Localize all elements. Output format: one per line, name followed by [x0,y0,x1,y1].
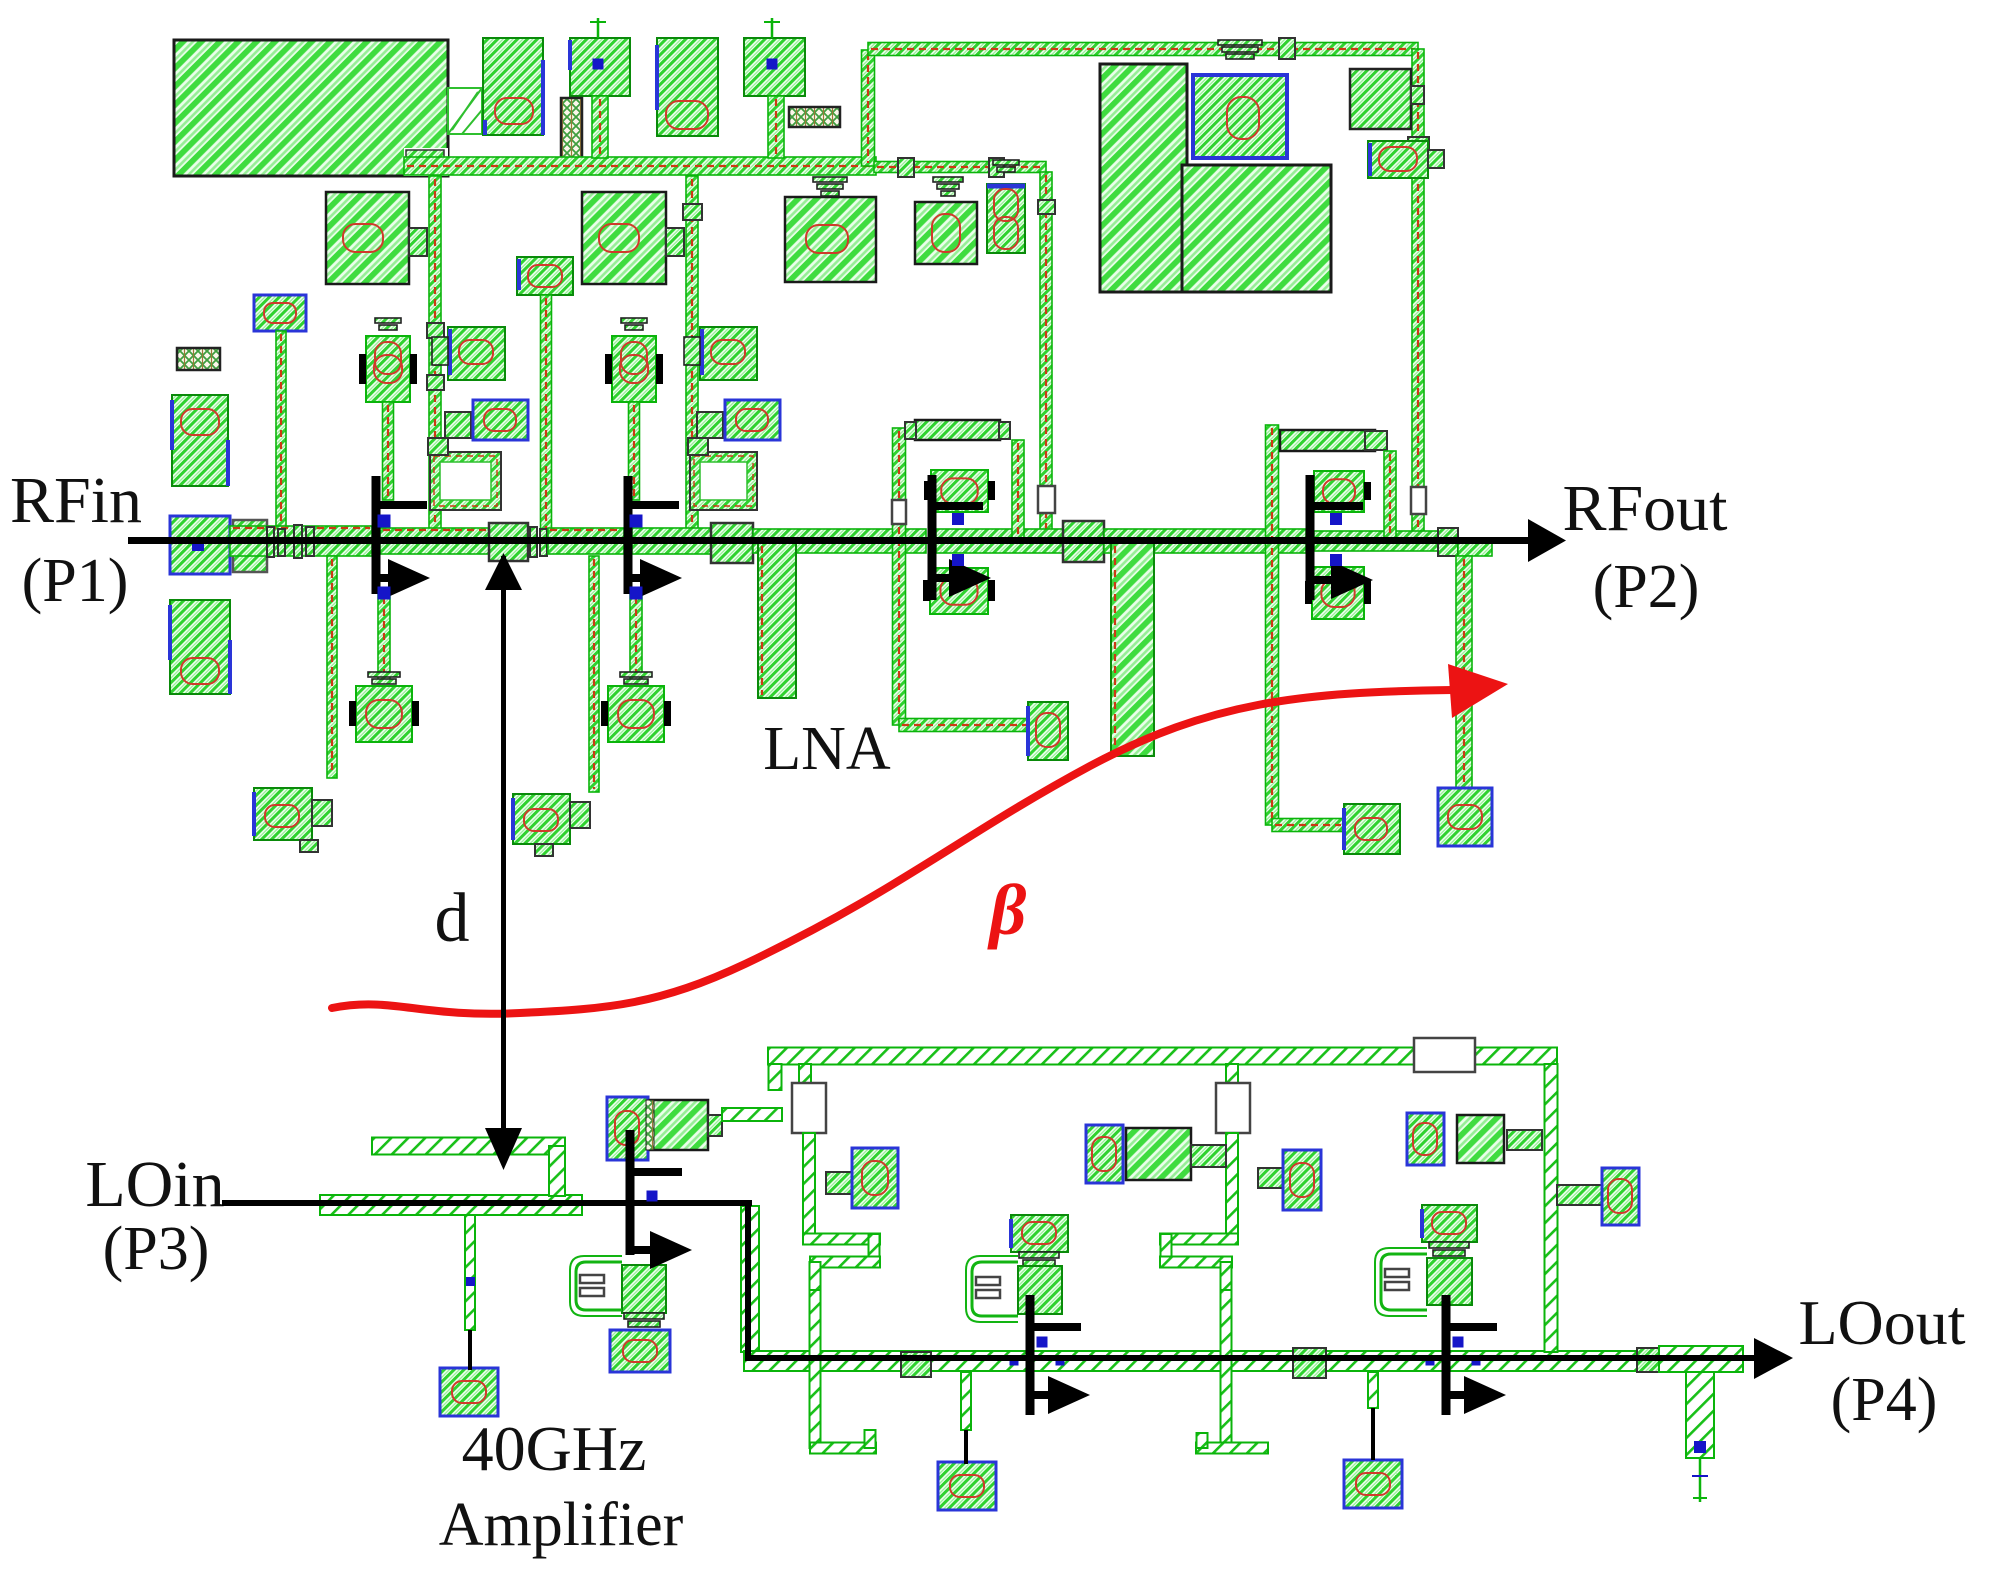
wire pad-b2 drop [768,96,784,158]
capacitor sym A1 [580,1275,604,1296]
open stub (wide) st1 [758,543,796,698]
transistor Q4 loop left leg [1266,425,1279,825]
wire black pin A3 [1371,1408,1375,1460]
capacitor C35 (A3 top) [1422,1205,1477,1256]
port label LOout [1798,1287,1965,1358]
LO output line wire [745,1355,1757,1361]
RF microstrip segment s2 [380,528,489,554]
capacitor C11 [172,395,228,486]
svg-text:(P1): (P1) [22,547,129,615]
V-rail microstrip [722,1048,1557,1122]
resistor RA3 (on rail) [1414,1038,1475,1072]
feedback loop stage1 [428,438,501,510]
thin-film resistor (cross-hatch) RX1 [561,98,582,158]
wire source stem stage2 [630,594,642,683]
capacitor C19 [697,400,780,440]
bypass capacitor C20 stage2 [601,672,671,742]
capacitor C34 (A2 stub) [938,1462,996,1510]
label beta [987,870,1027,950]
resistor R4 on stage4 bias wire [1411,487,1426,514]
capacitor C27 (Q4 bottom) [1305,567,1371,619]
wire gate stem stage1 [383,402,394,500]
gate cap stack stage2 [605,318,663,402]
LO output tee pad [1659,1346,1743,1502]
LO vertical microstrip [741,1206,759,1352]
RF input pad (P1) [170,516,230,574]
output junction block [1438,528,1458,556]
capacitor C4 [1368,141,1444,178]
feedback coupling curve (beta) [332,664,1508,1014]
transistor Q2 [624,476,683,600]
thin-film resistor RX3 [177,348,220,370]
svg-text:RFout: RFout [1562,472,1727,545]
RF microstrip segment s7 [1104,529,1306,553]
connector LO line a [901,1352,1065,1377]
capacitor C18 [684,327,757,380]
capacitor C32 [1258,1150,1321,1210]
RF microstrip segment s3 [548,528,624,554]
svg-text:(P4): (P4) [1831,1366,1938,1434]
capacitor C3 (blue frame) [1193,40,1287,158]
resistor R3 on stage3 bias wire [1038,486,1055,513]
RF microstrip segment s4 [632,528,711,554]
via pad P_b2 [744,18,805,96]
capacitor C14 [432,327,505,380]
block label Amplifier [439,1491,684,1559]
port label (P4) [1831,1366,1938,1434]
pad R1 [1350,69,1424,129]
capacitor C8 [254,295,306,331]
LO output microstrip [744,1351,1660,1371]
pad A1 drain block [646,1100,722,1150]
port label (P1) [22,547,129,615]
dimension arrow down [485,1128,522,1170]
shunt stub wire stage2 [589,556,599,792]
svg-text:d: d [435,880,470,957]
inductor loop stage4 top bar [1280,430,1387,451]
capacitor pad C1 [483,38,543,135]
capacitor pad C2 [657,38,718,136]
capacitor sym A3 [1385,1269,1409,1290]
bias wire down to stage4 (right vertical) [1412,49,1424,540]
LOout arrowhead [1754,1338,1793,1379]
capacitor C17 (stub end) [254,788,332,852]
block A2 gate [1018,1266,1062,1314]
label d [435,880,470,957]
inductor loop stage3 left leg [893,428,906,725]
block A1 source [622,1265,666,1327]
port label RFout [1562,472,1727,545]
dimension arrow up [485,553,522,590]
capacitor C33 (A2 top) [1011,1215,1068,1266]
LO input microstrip [320,1195,582,1215]
thin-film resistor (cross-hatch) RX2 [789,107,840,127]
shunt stub LOin [465,1215,475,1330]
connector pair in2 [294,525,314,558]
capacitor C31 [1557,1168,1639,1225]
capacitor C36 (A3 stub) [1344,1460,1402,1508]
bypass pair A2 [1086,1125,1226,1183]
capacitor C24 (Q3 bottom) [923,568,995,614]
capacitor C5 [326,192,427,284]
shunt stub A2 [961,1372,971,1430]
LO line vertical wire [745,1200,751,1360]
S-meander A1 [803,1234,880,1454]
bypass capacitor C16 stage1 [349,672,419,742]
capacitor C10 [987,160,1025,253]
matching block m3 [1063,521,1104,562]
capacitor C12 [170,600,230,694]
port label (P3) [103,1215,210,1283]
bypass loop A3 [1375,1248,1427,1316]
transistor Q4 [1306,475,1374,600]
svg-text:Amplifier: Amplifier [439,1491,684,1559]
svg-text:LOin: LOin [85,1148,224,1221]
bypass loop A1 [570,1256,622,1316]
wire C8 stem [276,331,286,532]
gate cap stack stage1 [359,318,417,402]
capacitor C22 (stage3 gnd) [1028,702,1068,760]
output stub tee [1456,538,1492,788]
capacitor C28 (LOin stub) [440,1368,498,1416]
via pad P_b1 [570,18,630,96]
connector LO line b [1293,1348,1481,1378]
capacitor C25 (stage4 gnd) [1344,804,1400,854]
wire C7 stem [541,295,552,532]
connector pair in1 [267,527,285,557]
svg-text:RFin: RFin [10,464,142,537]
gate tap cap A2 [826,1148,898,1208]
bias bus wire (lower) [404,157,876,175]
open stub (wide) st2 [1111,542,1154,756]
wire black pin A2 [964,1430,968,1464]
bias wire down to stage1 [427,176,444,530]
wire loop bottom stage3 [899,719,1030,732]
svg-text:40GHz: 40GHz [462,1413,647,1484]
resistor RA2 [1216,1064,1250,1240]
inductor loop stage3 top bar [905,420,1010,440]
bias bus wire (upper) [868,43,1418,56]
capacitor C6 [582,192,684,284]
svg-text:(P2): (P2) [1593,553,1700,621]
transistor QA3 [1442,1295,1507,1415]
block A3 gate [1427,1258,1472,1305]
capacitor C7 [517,257,573,295]
bias wire down to stage2 [683,176,702,540]
connector pair mid1 [530,527,547,557]
matching block m2 [711,523,753,563]
wire source stem stage1 [378,594,390,683]
port label (P2) [1593,553,1700,621]
RF main line wire [128,537,1528,544]
bypass loop A2 [966,1256,1018,1322]
feedback loop stage2 [688,438,757,510]
ground-plane block L2 part B [1182,165,1331,292]
LO input open stub [372,1138,565,1197]
transistor QA2 [1026,1295,1091,1415]
dimension line d [501,556,506,1131]
wire pad-b1 drop [592,96,608,158]
wire gate stem stage2 [629,402,640,500]
resistor on loop leg [892,500,906,524]
port label LOin [85,1148,224,1221]
connector on upper bus [1279,38,1295,59]
capacitor C9 (square) [915,177,977,264]
LO input line wire [222,1200,752,1206]
block label LNA [763,715,891,783]
block label 40GHz [462,1413,647,1484]
RF microstrip segment s5 [753,529,926,553]
bias wire down to stage3 [1038,172,1055,540]
transistor Q1 [372,476,431,600]
connector on right vertical [1408,137,1429,154]
connector LO line c [1637,1348,1659,1372]
RFout arrowhead [1528,519,1566,562]
shunt stub wire stage1 [327,556,337,778]
capacitor C29 (A1 gate top) [607,1097,648,1160]
inductor/ground-plane block L1 [174,40,448,176]
RF microstrip segment s8 [1314,531,1438,551]
bypass pair A3 [1407,1113,1542,1165]
RF microstrip segment s6 [936,529,1063,553]
svg-text:(P3): (P3) [103,1215,210,1283]
capacitor C9a (large square) [785,177,876,282]
transistor QA1 [626,1130,693,1269]
wire loop bottom stage4 [1272,819,1344,832]
transistor Q3 [928,475,992,600]
inductor loop stage4 right leg [1384,451,1396,538]
ground-plane block L2 part A [1100,64,1187,292]
wire to cap (black pin) [468,1330,472,1370]
capacitor C26 (Q4 top) [1307,471,1371,512]
bias bus thin segment [874,158,1046,177]
S-meander A2 [1160,1234,1268,1454]
matching block at input [233,520,267,572]
svg-text:LNA: LNA [763,715,891,783]
svg-text:β: β [987,870,1027,950]
capacitor C23 (Q3 top) [924,470,995,512]
matching stub block (d ref) [489,523,528,561]
bias bus vertical link [862,50,875,166]
shunt stub A3 [1368,1372,1378,1408]
inductor loop stage3 right leg [1012,440,1024,538]
capacitor C21 (stub end) [513,794,590,856]
port label RFin [10,464,142,537]
svg-text:LOout: LOout [1798,1287,1965,1358]
capacitor sym A2 [976,1277,1000,1298]
capacitor C13 (output stub) [1438,788,1492,846]
microstrip taper [448,88,482,134]
rail right drop [1545,1064,1558,1352]
RF microstrip segment s1 [230,526,372,556]
capacitor C15 [445,400,528,440]
resistor RA1 [792,1064,826,1240]
capacitor C30 (A1 source) [610,1330,670,1372]
